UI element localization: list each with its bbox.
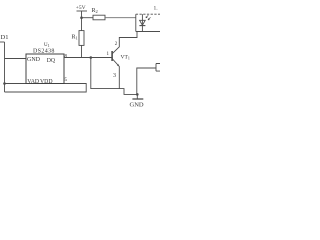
pin number 8: [65, 55, 68, 60]
svg-text:U1: U1: [44, 43, 50, 48]
wire node down to R1: [81, 18, 83, 31]
wire right component to GND net: [137, 68, 156, 94]
svg-text:VT1: VT1: [121, 55, 130, 61]
op-amp U1 DS2438 box: [26, 54, 64, 84]
U1 pin label VAD: [27, 79, 39, 85]
wire left rail to VAD pin: [5, 83, 27, 85]
pin number 1: [107, 52, 110, 57]
connector box at right edge: [156, 64, 160, 72]
wire node to R2: [82, 17, 94, 19]
LED anode wire: [141, 14, 143, 25]
svg-text:1.: 1.: [154, 6, 159, 12]
U1 pin label VDD: [40, 79, 53, 85]
svg-text:5: 5: [65, 78, 68, 83]
wire left rail vertical: [4, 42, 6, 92]
pin number 2: [115, 42, 118, 47]
svg-text:3: 3: [113, 73, 116, 79]
wire DQ to transistor base: [64, 57, 112, 59]
svg-text:+5V: +5V: [76, 5, 86, 11]
resistor R1 label: [72, 35, 78, 41]
LED cathode wire: [141, 26, 143, 32]
node DI label: [1, 34, 9, 41]
svg-text:GND: GND: [27, 57, 41, 63]
svg-text:GND: GND: [130, 102, 144, 109]
optocoupler box (dashed, cut at right edge): [136, 13, 160, 15]
U1 pin label GND: [27, 57, 41, 63]
emitter arrowhead: [117, 64, 119, 67]
wire DI from left edge: [0, 41, 5, 43]
U1 part number DS2438: [33, 48, 55, 54]
svg-text:DS2438: DS2438: [33, 48, 55, 54]
node junction dot on DQ line: [90, 56, 93, 59]
svg-text:2: 2: [115, 42, 118, 47]
svg-text:R1: R1: [72, 35, 78, 41]
wire from +5V bar down to node: [81, 11, 83, 18]
power rail +5V label: [76, 5, 86, 11]
U1 pin label DQ: [47, 58, 56, 64]
transistor emitter lead with arrow: [112, 59, 119, 89]
wire DQ pulldown to emitter net: [91, 58, 138, 95]
svg-text:R2: R2: [92, 8, 98, 14]
pin number 5: [65, 78, 68, 83]
resistor R2 value label: [92, 8, 98, 14]
resistor R2: [93, 15, 105, 20]
ground label GND: [130, 102, 144, 109]
svg-text:1: 1: [107, 52, 110, 57]
LED light arrow a: [146, 15, 148, 18]
svg-text:D1: D1: [1, 34, 9, 41]
wire bottom loop from left rail to VDD pin: [5, 84, 87, 93]
LED light arrow b: [148, 17, 150, 20]
wire R2 to LED box: [105, 17, 136, 19]
wire left rail to GND pin: [5, 58, 27, 60]
node junction dot at +5V rail: [80, 16, 83, 19]
U1 reference label: [44, 43, 50, 48]
node junction dot at GND: [136, 93, 139, 96]
transistor Q1 base bar: [111, 51, 113, 61]
pin number 3: [113, 73, 116, 79]
ground bar: [132, 98, 143, 100]
power rail bar: [77, 10, 88, 12]
ground stub: [136, 94, 138, 98]
node junction dot on left rail: [3, 82, 6, 85]
LED cathode bar: [139, 25, 145, 27]
transistor collector lead: [112, 32, 137, 54]
LED D1 triangle: [140, 20, 146, 25]
wire R1 to DQ line: [81, 45, 83, 57]
svg-text:VAD: VAD: [27, 79, 39, 85]
svg-text:VDD: VDD: [40, 79, 53, 85]
resistor R1: [79, 31, 84, 46]
transistor VT1 label: [121, 55, 130, 61]
svg-text:DQ: DQ: [47, 58, 56, 64]
pin number 1 at optocoupler: [154, 6, 159, 12]
svg-text:8: 8: [65, 55, 68, 60]
